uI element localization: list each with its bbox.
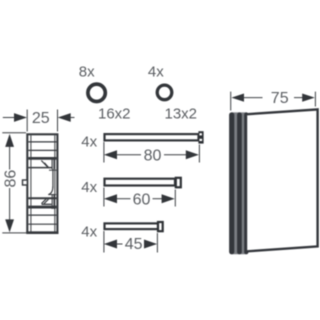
svg-text:45: 45 (125, 236, 143, 253)
svg-text:4x: 4x (81, 223, 97, 240)
svg-text:25: 25 (32, 110, 50, 127)
svg-text:4x: 4x (81, 179, 97, 196)
svg-text:4x: 4x (148, 64, 164, 81)
svg-text:8x: 8x (79, 64, 95, 81)
svg-text:16x2: 16x2 (98, 106, 131, 123)
svg-text:4x: 4x (81, 133, 97, 150)
svg-text:80: 80 (144, 148, 162, 165)
svg-text:86: 86 (2, 170, 19, 188)
svg-text:75: 75 (271, 90, 289, 107)
svg-text:60: 60 (133, 192, 151, 209)
svg-text:13x2: 13x2 (165, 106, 198, 123)
